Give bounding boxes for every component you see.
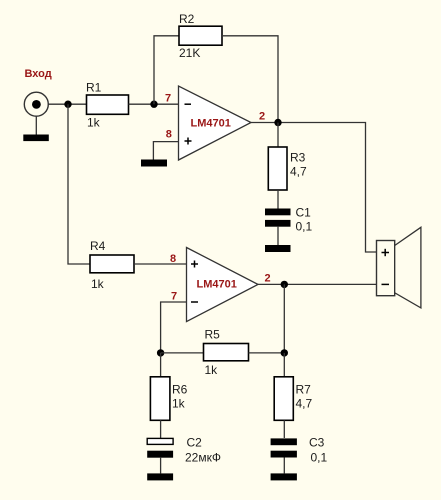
svg-text:R1: R1 xyxy=(86,80,102,94)
value 22мкФ of C2 xyxy=(185,451,221,465)
speaker LS1 xyxy=(377,227,421,308)
svg-text:8: 8 xyxy=(166,129,172,141)
label LM4701 of U1 xyxy=(191,118,231,130)
pin 7 label of U2 xyxy=(171,291,177,303)
resistor R6 xyxy=(150,377,170,421)
svg-text:0,1: 0,1 xyxy=(311,451,328,465)
wire U2 output down to R5/R7 node xyxy=(283,284,285,353)
wire R1 to inverting node xyxy=(129,103,179,105)
ground under C1 xyxy=(265,245,291,252)
svg-text:2: 2 xyxy=(265,273,271,285)
resistor R3 xyxy=(268,147,287,190)
wire node to R6 xyxy=(160,353,162,377)
svg-text:1k: 1k xyxy=(172,397,186,411)
wire U2 pin7 down to R5 node xyxy=(161,302,187,353)
connector J1 input jack xyxy=(24,92,48,134)
svg-text:R2: R2 xyxy=(179,12,195,26)
ground under input jack xyxy=(23,135,49,142)
pin 8 label of U1 xyxy=(166,129,172,141)
wire U2 output to speaker minus xyxy=(258,283,377,285)
label R2 xyxy=(179,12,195,26)
ground under C2 xyxy=(147,473,173,480)
pin 2 label of U1 xyxy=(259,111,265,123)
resistor R2 xyxy=(179,26,222,45)
svg-text:LM4701: LM4701 xyxy=(197,279,237,291)
svg-text:21K: 21K xyxy=(179,46,200,60)
svg-text:2: 2 xyxy=(259,111,265,123)
svg-text:4,7: 4,7 xyxy=(290,164,307,178)
svg-text:7: 7 xyxy=(165,92,171,104)
capacitor C1 xyxy=(265,209,291,227)
svg-text:4,7: 4,7 xyxy=(296,397,313,411)
value 1k of R1 xyxy=(87,115,101,129)
resistor R1 xyxy=(87,95,129,114)
wire C3 to ground xyxy=(283,458,285,474)
label R4 xyxy=(90,239,106,253)
ground at U1 pin 8 xyxy=(141,160,167,167)
op-amp U1 LM4701 xyxy=(179,86,252,160)
svg-text:R7: R7 xyxy=(296,383,312,397)
svg-text:C1: C1 xyxy=(296,206,312,220)
wire input node down to R4 row xyxy=(68,104,90,264)
label C1 xyxy=(296,206,312,220)
op-amp U2 LM4701 xyxy=(187,248,259,322)
wire R6 to C2 xyxy=(160,420,162,438)
label LM4701 of U2 xyxy=(197,279,237,291)
wire C1 to ground xyxy=(277,227,279,245)
capacitor C2 electrolytic xyxy=(147,438,173,457)
svg-text:1k: 1k xyxy=(91,277,105,291)
value 4,7 of R3 xyxy=(290,164,307,178)
svg-text:1k: 1k xyxy=(205,363,219,377)
value 4,7 of R7 xyxy=(296,397,313,411)
resistor R7 xyxy=(274,377,293,421)
node U2 output junction xyxy=(281,281,288,288)
wire pin8 to ground xyxy=(153,142,178,160)
svg-text:0,1: 0,1 xyxy=(296,220,313,234)
wire node to R7 xyxy=(283,353,285,377)
node Вход label xyxy=(25,68,52,80)
label R6 xyxy=(172,383,188,397)
svg-text:1k: 1k xyxy=(87,115,101,129)
wire R2 to output node xyxy=(222,36,278,123)
svg-text:LM4701: LM4701 xyxy=(191,118,231,130)
value 1k of R4 xyxy=(91,277,105,291)
wire jack to input node xyxy=(48,103,87,105)
wire R7 to C3 xyxy=(283,420,285,438)
value 0,1 of C3 xyxy=(311,451,328,465)
node R5 right junction xyxy=(281,349,288,356)
node U1 output junction xyxy=(274,119,281,126)
label R1 xyxy=(86,80,102,94)
wire output node down to R3 xyxy=(277,123,279,148)
wire feedback up to R2 xyxy=(154,36,179,104)
ground under C3 xyxy=(271,473,297,480)
wire C2 to ground xyxy=(160,458,162,474)
label C2 xyxy=(187,436,203,450)
svg-text:7: 7 xyxy=(171,291,177,303)
value 0,1 of C1 xyxy=(296,220,313,234)
node input junction xyxy=(64,101,71,108)
node inverting input junction xyxy=(150,101,157,108)
value 1k of R6 xyxy=(172,397,186,411)
pin 7 label of U1 xyxy=(165,92,171,104)
wire R4 to U2 pin 8 xyxy=(134,263,187,265)
node R5 left junction xyxy=(157,349,164,356)
svg-text:R4: R4 xyxy=(90,239,106,253)
wire R5 left xyxy=(161,352,204,354)
label R5 xyxy=(205,328,221,342)
value 21K of R2 xyxy=(179,46,200,60)
svg-text:C2: C2 xyxy=(187,436,203,450)
wire U1 output to speaker plus xyxy=(251,123,377,253)
label R7 xyxy=(296,383,312,397)
capacitor C3 xyxy=(271,438,297,457)
pin 8 label of U2 xyxy=(170,253,176,265)
wire R3 to C1 xyxy=(277,190,279,209)
label R3 xyxy=(290,150,306,164)
svg-text:C3: C3 xyxy=(309,436,325,450)
svg-text:R5: R5 xyxy=(205,328,221,342)
resistor R4 xyxy=(90,255,134,273)
wire R5 right xyxy=(249,352,285,354)
resistor R5 xyxy=(204,344,249,361)
svg-text:22мкФ: 22мкФ xyxy=(185,451,221,465)
svg-text:R6: R6 xyxy=(172,383,188,397)
label C3 xyxy=(309,436,325,450)
value 1k of R5 xyxy=(205,363,219,377)
svg-text:R3: R3 xyxy=(290,150,306,164)
pin 2 label of U2 xyxy=(265,273,271,285)
svg-text:8: 8 xyxy=(170,253,176,265)
svg-text:Вход: Вход xyxy=(25,68,52,80)
